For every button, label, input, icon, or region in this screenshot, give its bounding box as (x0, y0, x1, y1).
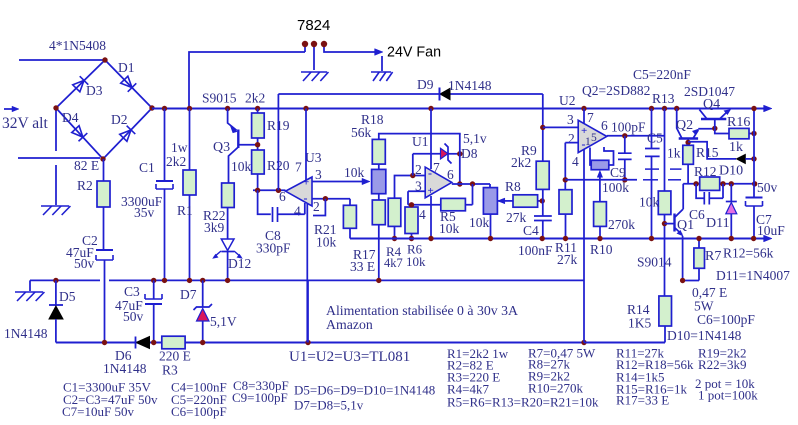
svg-text:D5=D6=D9=D10=1N4148: D5=D6=D9=D10=1N4148 (294, 383, 435, 398)
svg-text:Q2=2SD882: Q2=2SD882 (582, 83, 650, 98)
svg-text:D5: D5 (59, 289, 76, 304)
svg-text:24V Fan: 24V Fan (387, 45, 441, 61)
svg-text:1N4148: 1N4148 (4, 326, 48, 341)
svg-text:R10=270k: R10=270k (528, 381, 584, 396)
svg-text:D11=1N4007: D11=1N4007 (716, 268, 790, 283)
svg-text:D12: D12 (228, 256, 251, 271)
svg-text:R17=33 E: R17=33 E (616, 393, 669, 408)
svg-text:1 pot=100k: 1 pot=100k (698, 388, 758, 403)
svg-text:C9=100pF: C9=100pF (232, 390, 288, 405)
svg-text:3: 3 (567, 112, 574, 127)
svg-text:3k9: 3k9 (204, 220, 225, 235)
svg-text:C6=100pF: C6=100pF (697, 312, 755, 327)
svg-text:Q2: Q2 (676, 118, 693, 133)
svg-text:D11: D11 (706, 216, 730, 231)
svg-text:U3: U3 (305, 150, 322, 165)
svg-text:4: 4 (419, 207, 426, 222)
svg-text:5: 5 (591, 132, 597, 144)
svg-text:33 E: 33 E (350, 259, 375, 274)
svg-text:5,1v: 5,1v (463, 131, 487, 146)
svg-text:D10: D10 (719, 164, 743, 179)
svg-text:C4: C4 (523, 223, 539, 238)
svg-text:D7: D7 (180, 287, 197, 302)
svg-text:D9: D9 (417, 77, 434, 92)
svg-text:C9: C9 (610, 165, 626, 180)
svg-text:Alimentation stabilisée 0 à 30: Alimentation stabilisée 0 à 30v 3A (326, 303, 518, 318)
svg-text:U1=U2=U3=TL081: U1=U2=U3=TL081 (289, 349, 410, 365)
svg-text:Q3: Q3 (213, 140, 230, 155)
svg-text:Q4: Q4 (703, 97, 720, 112)
svg-text:50v: 50v (123, 309, 144, 324)
svg-text:50v: 50v (757, 180, 778, 195)
svg-text:32V alt: 32V alt (2, 115, 48, 132)
svg-text:2k2: 2k2 (245, 91, 265, 106)
svg-text:R22=3k9: R22=3k9 (698, 357, 747, 372)
svg-text:10k: 10k (639, 195, 660, 210)
svg-text:D2: D2 (111, 112, 128, 127)
svg-text:3: 3 (315, 167, 322, 182)
svg-text:2: 2 (313, 199, 320, 214)
svg-text:Amazon: Amazon (326, 317, 373, 332)
svg-text:R2: R2 (77, 178, 93, 193)
svg-text:R10: R10 (590, 242, 613, 257)
svg-text:U1: U1 (412, 134, 429, 149)
svg-text:50v: 50v (74, 256, 95, 271)
svg-text:2: 2 (568, 131, 575, 146)
svg-text:10k: 10k (344, 165, 365, 180)
svg-text:C3: C3 (124, 284, 140, 299)
svg-text:7: 7 (295, 160, 302, 175)
svg-text:1k: 1k (667, 146, 681, 161)
svg-text:35v: 35v (134, 205, 155, 220)
svg-text:82 E: 82 E (74, 158, 99, 173)
svg-text:+: + (428, 185, 434, 197)
svg-text:R12=56k: R12=56k (723, 246, 774, 261)
svg-text:27k: 27k (557, 252, 578, 267)
svg-text:100k: 100k (602, 180, 629, 195)
svg-text:4k7: 4k7 (384, 256, 403, 270)
svg-text:10k: 10k (406, 254, 426, 269)
svg-text:2SD1047: 2SD1047 (684, 84, 735, 99)
svg-text:100pF: 100pF (611, 120, 646, 135)
svg-text:C6=100pF: C6=100pF (171, 404, 227, 419)
svg-text:1N4148: 1N4148 (448, 78, 492, 93)
svg-text:7824: 7824 (297, 17, 330, 34)
svg-text:R16: R16 (727, 115, 750, 130)
svg-text:C5=220nF: C5=220nF (633, 67, 691, 82)
svg-text:R3: R3 (162, 363, 178, 378)
svg-text:C6: C6 (689, 207, 705, 222)
svg-text:D10=1N4148: D10=1N4148 (667, 328, 742, 343)
svg-text:10k: 10k (316, 235, 337, 250)
svg-text:1w: 1w (171, 140, 188, 155)
svg-text:-: - (304, 191, 308, 205)
svg-text:C7=10uF 50v: C7=10uF 50v (62, 404, 134, 419)
svg-text:R5=R6=R13=R20=R21=10k: R5=R6=R13=R20=R21=10k (447, 395, 599, 410)
svg-text:2k2: 2k2 (166, 154, 186, 169)
svg-text:4*1N5408: 4*1N5408 (49, 38, 106, 53)
svg-text:56k: 56k (351, 125, 372, 140)
svg-text:R8: R8 (505, 179, 521, 194)
svg-text:5,1V: 5,1V (210, 314, 237, 329)
svg-text:7: 7 (433, 160, 440, 175)
svg-text:R12: R12 (694, 164, 717, 179)
svg-text:220 E: 220 E (159, 349, 191, 364)
svg-text:S9015: S9015 (202, 91, 237, 106)
svg-text:6: 6 (601, 118, 608, 133)
svg-text:C1: C1 (139, 160, 155, 175)
svg-text:6: 6 (447, 167, 454, 182)
svg-text:10uF: 10uF (757, 223, 785, 238)
svg-text:100nF: 100nF (518, 243, 553, 258)
svg-text:D7=D8=5,1v: D7=D8=5,1v (294, 398, 364, 413)
svg-text:R13: R13 (652, 91, 675, 106)
svg-text:D4: D4 (62, 110, 79, 125)
svg-text:270k: 270k (608, 217, 635, 232)
svg-text:D8: D8 (461, 146, 478, 161)
svg-text:4: 4 (294, 204, 301, 219)
svg-text:4: 4 (572, 154, 579, 169)
svg-text:S9014: S9014 (637, 255, 672, 270)
svg-text:7: 7 (587, 110, 594, 125)
svg-text:10k: 10k (439, 221, 460, 236)
svg-text:1K5: 1K5 (628, 316, 651, 331)
svg-text:D3: D3 (86, 83, 103, 98)
svg-text:10k: 10k (231, 159, 252, 174)
svg-text:D1: D1 (118, 60, 135, 75)
svg-text:2k2: 2k2 (511, 155, 531, 170)
svg-text:R7: R7 (705, 249, 721, 264)
svg-text:330pF: 330pF (256, 241, 291, 256)
svg-text:10k: 10k (469, 215, 490, 230)
svg-text:C5: C5 (647, 131, 663, 146)
svg-text:1k: 1k (729, 140, 743, 155)
svg-text:R1: R1 (177, 203, 193, 218)
svg-text:U2: U2 (559, 93, 576, 108)
svg-text:1N4148: 1N4148 (103, 361, 147, 376)
